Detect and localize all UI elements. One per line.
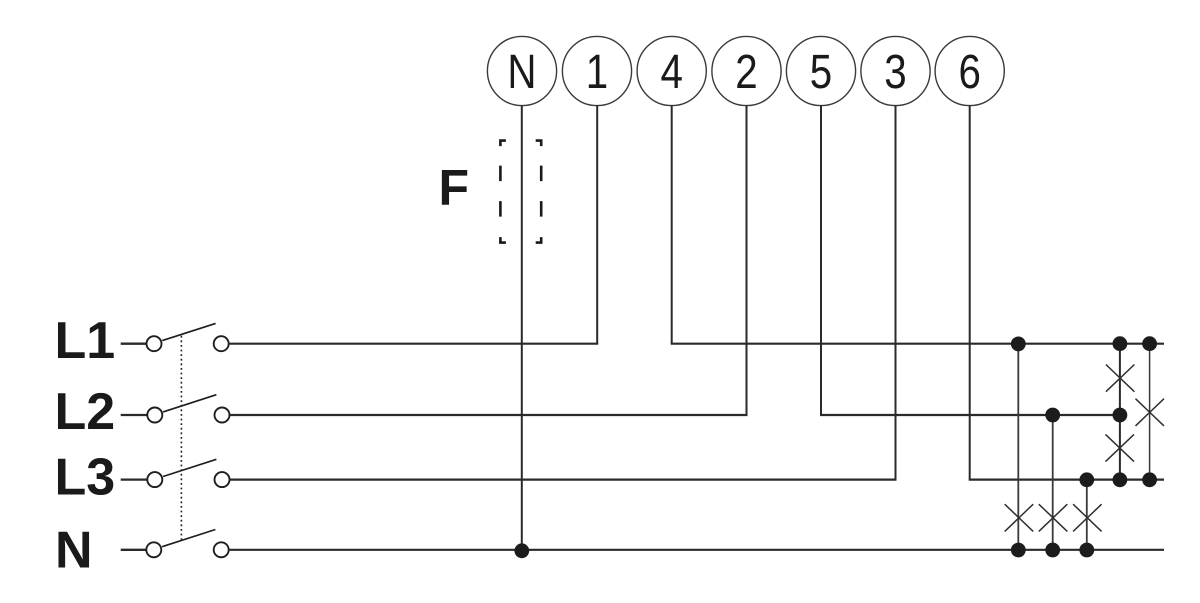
wire N lead-in bbox=[121, 549, 147, 551]
junction N x1087 bbox=[1079, 543, 1094, 558]
wire L3 left segment bbox=[230, 479, 897, 481]
terminal 6 bbox=[935, 36, 1004, 105]
wire L2 left segment bbox=[230, 414, 748, 416]
svg-text:5: 5 bbox=[810, 46, 832, 99]
wire terminal 3 down to L3 line bbox=[895, 105, 897, 479]
wire link L1 to N (vertical at 1018) bbox=[1017, 344, 1019, 550]
svg-text:3: 3 bbox=[884, 46, 906, 99]
X mark link L1-L2 bbox=[1106, 365, 1135, 392]
X mark link L1-N bbox=[1005, 504, 1033, 531]
wire L1 left segment bbox=[229, 343, 598, 345]
svg-text:L3: L3 bbox=[55, 448, 116, 506]
junction N x1053 bbox=[1045, 543, 1060, 558]
svg-text:L1: L1 bbox=[55, 312, 116, 370]
switch pole N bbox=[146, 530, 228, 558]
svg-text:N: N bbox=[507, 46, 536, 99]
wire N line bbox=[229, 549, 1164, 551]
junction L3 x1087 bbox=[1079, 472, 1094, 487]
svg-text:F: F bbox=[439, 159, 470, 215]
junction L3 x1150 bbox=[1142, 472, 1157, 487]
switch linkage (dotted) bbox=[180, 336, 182, 540]
wire L3 lead-in bbox=[121, 478, 147, 480]
switch pole L1 bbox=[147, 323, 229, 351]
junction L1 x1120 bbox=[1113, 336, 1128, 351]
terminal 2 bbox=[712, 36, 781, 105]
wire terminal 5 down to L2 line bbox=[820, 105, 822, 415]
X mark link L2-N bbox=[1039, 504, 1068, 531]
X mark link L2-L3 bbox=[1106, 434, 1135, 461]
terminal N bbox=[487, 36, 556, 105]
wire terminal 1 down to L1 line bbox=[596, 105, 598, 343]
switch pole L2 bbox=[147, 395, 229, 423]
terminal 1 bbox=[562, 36, 631, 105]
wire terminal 4 down to L1 line bbox=[671, 105, 673, 343]
fuse F bbox=[499, 141, 542, 243]
wire terminal N down to N line bbox=[521, 105, 523, 550]
svg-text:L2: L2 bbox=[55, 383, 116, 441]
junction N wire / N line bbox=[514, 543, 529, 558]
terminal 5 bbox=[786, 36, 855, 105]
junction L1 x1150 bbox=[1142, 336, 1157, 351]
junction L1 x1018 bbox=[1011, 337, 1026, 352]
svg-text:4: 4 bbox=[660, 46, 682, 99]
junction L3 x1120 bbox=[1113, 472, 1128, 487]
wire L1 lead-in bbox=[121, 343, 147, 345]
wire link L1 to L3 (vertical at 1150) bbox=[1149, 344, 1151, 480]
svg-text:2: 2 bbox=[735, 46, 757, 99]
X mark link L1-L3 bbox=[1136, 399, 1165, 426]
junction L2 x1053 bbox=[1045, 408, 1060, 423]
wire L1 right segment bbox=[671, 343, 1164, 345]
wire L2 right segment bbox=[820, 414, 1120, 416]
wire L3 right segment bbox=[969, 479, 1164, 481]
junction L2 x1120 bbox=[1113, 408, 1128, 423]
wire L2 lead-in bbox=[121, 414, 147, 416]
switch pole L3 bbox=[147, 459, 229, 487]
terminal 3 bbox=[861, 36, 930, 105]
wire terminal 2 down to L2 line bbox=[746, 105, 748, 415]
wire link L3 to N (vertical at 1087) bbox=[1086, 480, 1088, 550]
wire terminal 6 down to L3 line bbox=[969, 105, 971, 479]
svg-text:N: N bbox=[55, 522, 93, 580]
svg-text:1: 1 bbox=[586, 46, 608, 99]
svg-text:6: 6 bbox=[958, 46, 980, 99]
wire link L1-L2-L3 (vertical at 1120) bbox=[1119, 344, 1121, 480]
X mark link L3-N bbox=[1073, 504, 1102, 531]
wire link L2 to N (vertical at 1053) bbox=[1052, 415, 1054, 550]
junction N x1018 bbox=[1011, 543, 1026, 558]
terminal 4 bbox=[637, 36, 706, 105]
